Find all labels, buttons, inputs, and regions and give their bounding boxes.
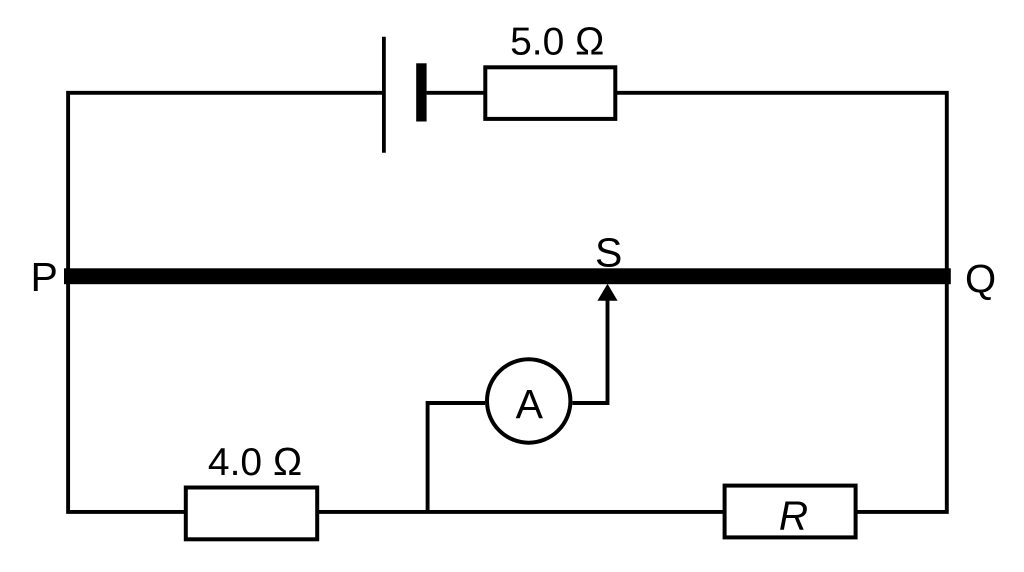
svg-text:A: A (516, 381, 544, 427)
svg-text:S: S (595, 230, 622, 276)
svg-text:R: R (779, 492, 808, 538)
svg-text:5.0 Ω: 5.0 Ω (510, 21, 604, 64)
svg-text:Q: Q (965, 257, 996, 301)
svg-text:4.0 Ω: 4.0 Ω (208, 441, 302, 484)
svg-text:P: P (31, 254, 58, 300)
